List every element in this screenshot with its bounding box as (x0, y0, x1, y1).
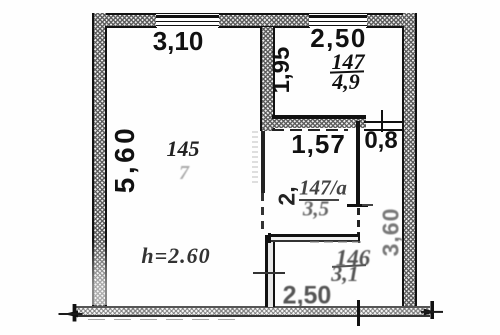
tick across bottom wall (357, 300, 360, 326)
room 145 faint mark (179, 163, 189, 183)
room 146 underline (332, 264, 366, 268)
bottom wall top edge (76, 306, 430, 308)
door tick across that wall (253, 272, 285, 274)
corner marker bottom-left (55, 295, 105, 330)
dim 0,8 (364, 129, 397, 153)
top wall inner edge segment left (105, 26, 157, 28)
left wall fade (scan) (91, 240, 108, 305)
dim 2,50 bottom (283, 284, 332, 309)
bottom wall bottom edge (76, 315, 430, 317)
room 147/a label (299, 178, 347, 199)
left wall outer edge (92, 13, 94, 307)
faint smudge above room 146 label (310, 241, 366, 243)
room 147 underline (330, 70, 364, 73)
right wall (403, 13, 417, 307)
dim 5,60 (rotated) (111, 125, 139, 194)
wall between room 147 and room 147/a : top line (272, 115, 366, 119)
dim 2 (rotated) (276, 186, 299, 205)
bottom wall (76, 306, 430, 316)
room 147/a underline (299, 199, 339, 201)
top wall (92, 13, 417, 27)
left wall inner edge (105, 26, 107, 307)
window W2 in top wall (309, 14, 367, 27)
room 147/a area 3,5 (303, 199, 329, 220)
room 145 label (167, 138, 200, 160)
dim 3,60 (rotated) (380, 208, 403, 257)
dim 3,10 (153, 28, 204, 54)
right wall inner edge (402, 26, 404, 307)
dim 2,50 top (310, 25, 367, 51)
room 146 area 3,1 (331, 263, 359, 285)
closet cross tick (381, 110, 384, 132)
wall between room 147 and room 147/a : hatch band (262, 119, 366, 129)
dashed wall between room 145 and room 147/a (261, 131, 265, 193)
room 146 label (336, 247, 371, 270)
right wall outer edge (415, 13, 417, 307)
room 147 label (332, 51, 365, 73)
left wall (92, 13, 106, 307)
wall between room 147/a and closet 0,8 (356, 121, 360, 207)
wall between room 147/a and room 146 (horizontal) (269, 234, 359, 243)
interior wall between room 145 and room 147 (260, 27, 274, 131)
top wall outer edge (92, 13, 417, 15)
wall between room 145 and room 146 (vertical, bottom) (265, 235, 275, 307)
corner marker bottom-right (415, 293, 450, 328)
wall between room 147 and room 147/a : dashed bottom line (272, 129, 348, 131)
room 145 height note h=2.60 (141, 245, 210, 267)
room 147 area 4,9 (332, 71, 360, 93)
faded hatch remnant left of that wall (252, 131, 258, 185)
dashed wall continuation below closet (357, 208, 360, 238)
smudge line below bottom wall (88, 319, 236, 321)
closet 0,8 top double lines (364, 121, 403, 123)
window W1 in top wall (156, 14, 219, 27)
top wall inner edge segment right (366, 26, 404, 28)
dim 1,57 (291, 131, 346, 157)
dim tick for 3,60 (362, 204, 373, 206)
dim 1,95 (rotated) (270, 47, 294, 94)
top wall inner edge segment mid (218, 26, 310, 28)
closet bottom tick (347, 204, 368, 207)
